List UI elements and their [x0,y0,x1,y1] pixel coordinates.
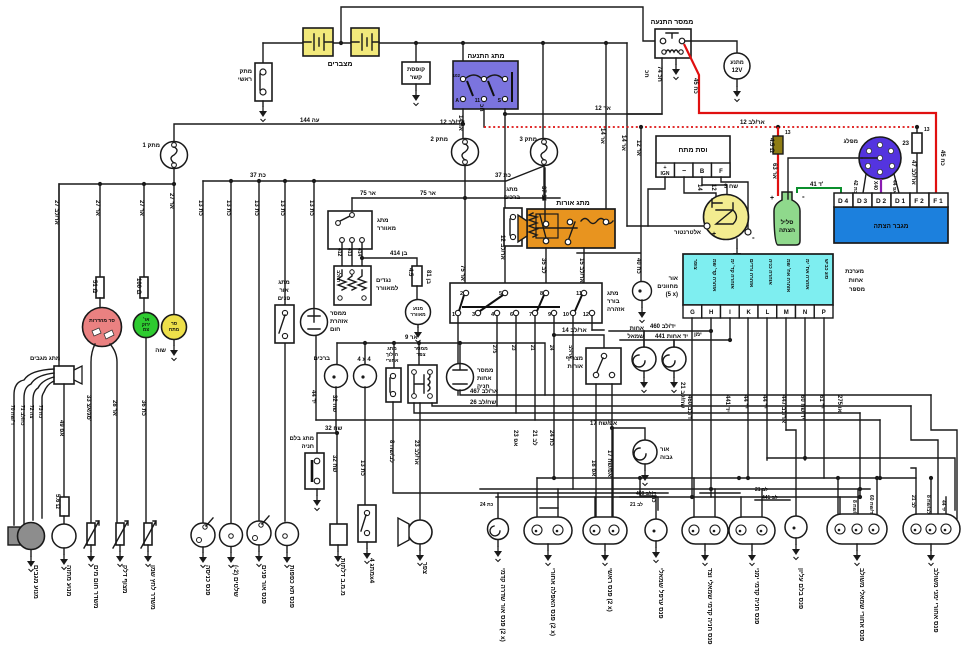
svg-text:12V: 12V [732,68,743,74]
svg-text:אור: אור [669,276,678,282]
svg-text:7: 7 [529,312,532,318]
svg-text:27 אר/לב: 27 אר/לב [53,200,61,225]
svg-text:75 אר: 75 אר [459,265,465,281]
svg-text:ברכים: ברכים [314,356,331,362]
svg-text:מצריף: מצריף [566,356,583,362]
svg-text:הילוך: הילוך [386,351,398,358]
svg-text:שלטים (2-): שלטים (2-) [232,565,240,597]
svg-text:+: + [770,195,774,202]
svg-text:-: - [752,233,755,242]
svg-text:חו/לב: חו/לב [335,270,342,283]
svg-text:אחורי: אחורי [386,358,399,364]
svg-text:35 לב: 35 לב [540,258,548,274]
svg-text:23 אפ: 23 אפ [512,430,518,446]
svg-text:מחוונים: מחוונים [657,284,678,290]
svg-text:D 4: D 4 [838,198,849,205]
svg-text:27 אר: 27 אר [138,200,144,216]
svg-text:27 אר: 27 אר [168,193,174,209]
svg-text:75 אר: 75 אר [420,191,436,197]
svg-text:D 3: D 3 [857,198,868,205]
svg-text:-: - [802,192,805,201]
svg-text:מתג מגבים: מתג מגבים [30,356,60,362]
svg-text:8 לב/שח: 8 לב/שח [388,440,396,463]
svg-text:צפר: צפר [421,562,428,574]
svg-text:32 שח: 32 שח [331,395,337,413]
svg-text:צפר: צפר [416,352,425,358]
svg-text:60 יד/שח: 60 יד/שח [868,495,874,516]
svg-text:275: 275 [491,345,497,354]
svg-text:28 אר: 28 אר [111,400,117,416]
svg-text:מצברים: מצברים [328,61,353,68]
svg-text:17 אפ/שח: 17 אפ/שח [590,421,617,427]
svg-text:חום: חום [330,327,340,333]
svg-text:24 כת: 24 כת [480,502,494,508]
svg-text:12 אר: 12 אר [595,106,611,112]
svg-text:23: 23 [902,141,909,147]
svg-text:45 כח: 45 כח [692,78,698,94]
svg-text:A: A [455,98,459,104]
svg-text:מתק 1: מתק 1 [143,143,160,149]
svg-text:71 כח/לב: 71 כח/לב [19,405,26,426]
svg-text:9: 9 [548,312,551,318]
svg-text:44 יד: 44 יד [940,500,946,512]
svg-text:מנוע: מנוע [413,307,423,312]
svg-text:וסת מתח: וסת מתח [679,147,708,154]
svg-text:ממסר התנעה: ממסר התנעה [651,19,694,26]
svg-text:סוג כביש: סוג כביש [823,259,829,280]
svg-text:10: 10 [563,312,569,318]
svg-text:פנס חניה קדמי ימני: פנס חניה קדמי ימני [753,568,760,624]
svg-text:מתח: מתח [169,328,180,333]
svg-text:275 או: 275 או [836,395,842,413]
svg-text:סר: סר [171,322,178,327]
svg-text:D 2: D 2 [876,198,887,205]
svg-text:N: N [803,310,807,316]
svg-text:חניה: חניה [301,444,314,450]
svg-text:73 כח: 73 כח [37,405,43,418]
svg-text:70 ד'/שח: 70 ד'/שח [9,405,15,425]
svg-text:41 ד': 41 ד' [810,182,824,188]
svg-text:4.5 Ω: 4.5 Ω [768,138,774,153]
svg-text:אחות: אחות [477,376,491,382]
svg-text:21 לב: 21 לב [910,495,917,508]
svg-text:12: 12 [710,184,716,191]
svg-text:414 בן: 414 בן [390,251,407,257]
svg-text:5: 5 [499,291,502,297]
svg-text:412: 412 [336,248,342,257]
svg-text:F 2: F 2 [914,198,924,205]
svg-text:6: 6 [510,312,513,318]
svg-text:סליל: סליל [781,218,794,226]
svg-text:למאוורר: למאוורר [376,284,399,292]
svg-text:26 שח/לב: 26 שח/לב [470,398,496,406]
svg-text:אור: אור [660,447,669,453]
svg-text:4.5: 4.5 [407,268,413,277]
svg-text:14: 14 [696,184,702,191]
svg-text:אזהרה קד' שמ: אזהרה קד' שמ [711,259,717,292]
svg-text:60 יד/שח: 60 יד/שח [799,395,805,420]
svg-text:מתג: מתג [607,291,619,297]
svg-text:ברכים: ברכים [504,195,521,201]
svg-text:פנס חניה קדמי שמאלי וצד: פנס חניה קדמי שמאלי וצד [706,568,714,645]
svg-text:24: 24 [548,345,554,351]
svg-text:14 אר: 14 אר [620,135,626,151]
svg-text:81 בן: 81 בן [425,270,431,284]
svg-text:אלטרנטור: אלטרנטור [674,228,701,236]
svg-text:K: K [747,310,752,316]
svg-text:G: G [690,310,695,316]
svg-text:אזהרה: אזהרה [607,307,625,313]
svg-text:הצתה: הצתה [779,228,795,234]
svg-text:פנס האפלה אחורי (2 x): פנס האפלה אחורי (2 x) [549,568,557,636]
svg-text:75 אר: 75 אר [360,191,376,197]
svg-text:אזהרה ורדים: אזהרה ורדים [748,259,754,288]
svg-text:ראשי: ראשי [238,77,252,83]
svg-text:144 עה: 144 עה [300,118,320,124]
svg-text:44 יד: 44 יד [761,395,767,409]
svg-text:מאוורר: מאוורר [410,313,426,318]
svg-text:H: H [709,310,713,316]
svg-text:44 יד: 44 יד [742,395,748,409]
svg-text:מתג: מתג [506,187,518,193]
svg-text:100 Ω: 100 Ω [135,278,141,295]
svg-text:פנס אור שדרה קדמי (2 x): פנס אור שדרה קדמי (2 x) [499,568,506,642]
svg-text:פנס אור פנים: פנס אור פנים [260,565,267,604]
svg-text:פנס ערפל שמאלי: פנס ערפל שמאלי [657,568,665,619]
svg-text:ממסר: ממסר [477,368,493,374]
svg-text:37 כת: 37 כת [250,173,266,179]
svg-text:44 אפ: 44 אפ [891,180,897,194]
svg-text:+: + [712,231,716,238]
svg-text:אור: אור [279,288,288,294]
svg-text:מצוף דלק: מצוף דלק [121,565,129,594]
svg-text:14 אר/לב: 14 אר/לב [562,326,587,334]
svg-text:467 אר/לב: 467 אר/לב [470,387,498,395]
svg-text:72 צה: 72 צה [28,405,34,418]
svg-text:460 ד/לב: 460 ד/לב [686,395,694,420]
svg-text:B: B [700,169,705,175]
svg-text:32 שח: 32 שח [325,426,343,432]
svg-text:42 כת: 42 כת [852,180,858,194]
svg-text:אורות: אורות [568,364,583,370]
svg-text:63 אר: 63 אר [771,163,777,179]
svg-text:פנס כניסה: פנס כניסה [204,565,211,595]
svg-text:441 יד אחות: 441 יד אחות [655,334,688,340]
svg-text:13: 13 [785,130,791,136]
svg-text:קשר: קשר [410,75,422,81]
svg-text:קופסת: קופסת [407,67,425,73]
svg-text:ממסר: ממסר [330,311,346,317]
svg-text:13 כת: 13 כת [253,200,259,216]
svg-text:9 אר: 9 אר [405,335,418,341]
svg-text:מגבר הצתה: מגבר הצתה [874,223,909,230]
svg-text:414: 414 [356,248,362,257]
svg-text:460 יד/לב: 460 יד/לב [650,322,676,330]
svg-text:פנס אחורי שמאלי משולב: פנס אחורי שמאלי משולב [858,568,866,641]
svg-text:44 יד: 44 יד [310,390,316,404]
svg-text:441 יד: 441 יד [724,395,730,412]
svg-text:13: 13 [924,127,930,133]
svg-text:מתק 2: מתק 2 [431,137,448,143]
svg-text:36 כת: 36 כת [140,400,146,416]
svg-text:2: 2 [460,291,463,297]
svg-text:21 לב: 21 לב [531,430,539,446]
svg-text:פנס ראשי (2 x): פנס ראשי (2 x) [606,568,613,612]
svg-text:F 1: F 1 [933,198,943,205]
svg-text:מאוורר: מאוורר [377,226,396,232]
svg-text:מתג התנעה: מתג התנעה [467,53,504,60]
svg-text:32 שח: 32 שח [331,455,337,473]
svg-text:21 לב: 21 לב [630,501,643,508]
svg-text:102: 102 [452,73,460,78]
svg-text:12 אר/לב: 12 אר/לב [740,118,765,126]
svg-text:15 אר/לב: 15 אר/לב [578,258,586,283]
svg-text:פנס בלם עליון: פנס בלם עליון [797,568,805,609]
svg-text:פנים: פנים [278,296,291,302]
svg-text:פנס תא כפפות: פנס תא כפפות [288,565,295,608]
svg-text:גבוה: גבוה [660,455,673,461]
svg-text:12 אר/לב: 12 אר/לב [440,118,465,126]
svg-text:5.6 Ω: 5.6 Ω [54,494,60,509]
svg-text:כת: כת [650,495,656,503]
svg-text:45 כח: 45 כח [939,150,945,166]
svg-text:פנס אחורי ימני משולב: פנס אחורי ימני משולב [932,568,940,633]
svg-text:13 כת: 13 כת [308,200,314,216]
svg-text:אזהרת: אזהרת [330,319,348,325]
svg-text:M: M [784,310,789,316]
svg-text:L: L [766,310,770,316]
svg-text:13 כת: 13 כת [359,460,365,476]
svg-text:21 לב: 21 לב [755,486,768,493]
svg-text:13 כת: 13 כת [279,200,285,216]
svg-text:מתג בלם: מתג בלם [289,434,314,442]
svg-text:מפלג: מפלג [844,137,858,145]
svg-text:37 כת: 37 כת [495,173,511,179]
svg-text:27 אר: 27 אר [94,200,100,216]
svg-text:חכ: חכ [643,70,649,78]
svg-text:אזהרה קד' ימ: אזהרה קד' ימ [729,259,735,289]
svg-text:מערכת: מערכת [845,269,864,275]
svg-text:−: − [682,168,686,175]
svg-text:18 אפ: 18 אפ [590,460,596,476]
svg-text:1: 1 [452,312,455,318]
svg-text:שוה: שוה [155,348,166,354]
svg-text:24 כת: 24 כת [548,430,554,446]
svg-text:אחות: אחות [849,278,863,284]
svg-text:51 Ω: 51 Ω [91,280,97,293]
svg-text:IGN: IGN [661,171,670,177]
svg-text:D 1: D 1 [895,198,906,205]
svg-text:מתג: מתג [278,280,290,286]
svg-text:49 אפ: 49 אפ [58,420,64,436]
svg-text:אזהרה כניה: אזהרה כניה [767,259,773,285]
svg-text:משדר לחץ שמן: משדר לחץ שמן [149,565,157,610]
svg-text:צמ: צמ [143,327,149,332]
svg-text:מ.מ.ב דלתות: מ.מ.ב דלתות [339,558,347,596]
svg-text:F: F [719,169,723,175]
svg-text:ימן: ימן [694,332,702,338]
svg-text:74 חכ: 74 חכ [656,66,662,82]
svg-text:מתג: מתג [377,218,389,224]
svg-text:אזהרה אח' שמ: אזהרה אח' שמ [785,259,791,293]
svg-text:מתג 4x4: מתג 4x4 [368,558,375,584]
svg-text:12 אר: 12 אר [635,140,641,156]
svg-text:P: P [822,310,826,316]
svg-text:צופר: צופר [692,259,698,270]
svg-text:21: 21 [529,345,535,351]
svg-text:שמאל: שמאל [627,332,644,340]
svg-text:23: 23 [510,345,516,351]
svg-text:X40: X40 [872,181,878,190]
svg-text:מתג אורות: מתג אורות [556,200,589,207]
svg-text:40 כח: 40 כח [635,258,641,274]
svg-text:12: 12 [583,312,589,318]
svg-text:סר מהדרות: סר מהדרות [89,318,115,324]
svg-text:חכ: חכ [478,104,484,112]
svg-text:14 אר: 14 אר [599,128,605,144]
svg-text:8: 8 [540,291,543,297]
svg-text:12 אר/לב: 12 אר/לב [499,235,507,260]
svg-text:441 לב: 441 לב [762,494,778,501]
svg-text:מנוע מתזה: מנוע מתזה [65,565,72,597]
svg-text:מתנע: מתנע [730,60,744,66]
svg-text:17 אפ/שח: 17 אפ/שח [606,450,612,477]
svg-text:47 אר/לב: 47 אר/לב [910,160,918,185]
svg-text:447 אר/לב: 447 אר/לב [780,395,788,423]
svg-text:61 יד: 61 יד [818,395,824,409]
svg-text:בורר: בורר [607,299,620,305]
svg-text:מספר: מספר [849,287,865,293]
svg-text:13 כת: 13 כת [197,200,203,216]
svg-text:מתק: מתק [240,69,252,75]
svg-text:נגדים: נגדים [376,278,391,284]
svg-text:413: 413 [346,248,352,257]
svg-text:(5 x): (5 x) [666,292,678,298]
svg-text:מנוע מגבים: מנוע מגבים [32,565,39,599]
svg-text:3: 3 [472,312,475,318]
svg-text:13 כת: 13 כת [225,200,231,216]
svg-text:33 סג/אצ': 33 סג/אצ' [85,395,91,422]
svg-text:11: 11 [576,291,582,297]
svg-text:8 לב/שח: 8 לב/שח [925,495,932,514]
svg-text:אזהרה אח' ימ: אזהרה אח' ימ [804,259,810,290]
svg-text:משדר חום מים: משדר חום מים [92,565,99,609]
svg-text:3 שח: 3 שח [724,184,738,190]
